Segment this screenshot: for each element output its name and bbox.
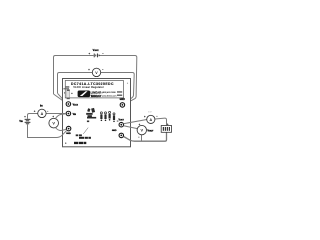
wire VOUT turret to voltmeter VOUT <box>124 126 138 129</box>
battery VAUX <box>94 54 99 58</box>
wire ammeter to VIN turret <box>46 113 66 115</box>
svg-text:VAUX: VAUX <box>73 104 79 107</box>
voltmeter top VAUX <box>92 68 100 76</box>
turret GND left (T3) <box>66 126 71 131</box>
voltmeter VOUT <box>137 125 146 134</box>
plus sign VAUX battery <box>89 53 91 55</box>
voltmeter VIN <box>49 118 59 128</box>
logo LT <box>78 91 91 98</box>
plus sign top voltmeter <box>88 69 90 71</box>
wire VAUX voltmeter loop right <box>101 73 135 105</box>
turret GND bottom right (TR3) <box>119 133 124 138</box>
svg-text:A: A <box>149 118 152 122</box>
minus sign ammeter IIN <box>47 110 48 112</box>
svg-text:VOUT: VOUT <box>119 120 125 122</box>
load resistor RL <box>161 126 171 133</box>
plus sign voltmeter VOUT <box>139 124 141 126</box>
svg-text:VLDO Linear Regulator: VLDO Linear Regulator <box>73 85 104 89</box>
wire VOUT turret to ammeter IOUT <box>124 120 147 124</box>
wire VAUX voltmeter into VAUX turret <box>58 93 66 102</box>
fiducial dot bottom left <box>65 143 66 144</box>
wire ammeter IOUT to load top <box>155 118 167 125</box>
svg-text:LINEAR: LINEAR <box>91 91 102 95</box>
demo board outline <box>63 79 131 147</box>
svg-text:GND: GND <box>66 133 71 135</box>
turret VAUX (T1) <box>66 102 71 107</box>
wire battery VIN bottom to GND turret <box>28 124 67 137</box>
svg-text:V: V <box>141 129 144 133</box>
svg-text:www.linear.com: www.linear.com <box>102 95 117 98</box>
svg-text:GND: GND <box>112 130 117 132</box>
turret VIN (T2) <box>66 111 71 116</box>
leader line to bottom text <box>83 128 88 134</box>
plus sign ammeter IOUT <box>144 116 146 118</box>
capacitor C3 silkscreen <box>63 86 72 99</box>
minus sign ammeter IOUT <box>156 115 157 117</box>
contact text extra <box>117 91 122 93</box>
wire voltmeter VOUT minus to bottom <box>141 135 143 142</box>
wire voltmeter VIN plus to VIN turret <box>55 114 66 119</box>
bottom silkscreen text row 2 <box>79 137 91 139</box>
wire VAUX battery loop right <box>99 56 137 106</box>
resistor R3 silkscreen <box>109 111 111 120</box>
plus sign load <box>167 123 169 125</box>
plus sign battery VIN <box>24 116 26 118</box>
mounting hole dot top right <box>127 83 128 84</box>
minus sign voltmeter VOUT <box>138 136 139 138</box>
wire VAUX voltmeter loop left <box>58 73 93 94</box>
minus sign VAUX battery <box>102 52 103 54</box>
svg-text:IOUT: IOUT <box>148 111 152 113</box>
turret GND top right (TR1) <box>120 103 125 108</box>
ammeter IOUT <box>147 115 155 123</box>
logo text LINEAR TECHNOLOGY <box>91 91 102 98</box>
resistor R2 silkscreen <box>104 112 106 121</box>
svg-text:A: A <box>41 112 44 116</box>
wire voltmeter VIN minus to GND turret <box>55 128 66 131</box>
capacitor C1 silkscreen slanted <box>86 108 96 119</box>
ammeter IIN <box>38 109 46 117</box>
wire VAUX battery loop top/left <box>54 56 94 95</box>
reference label U1 <box>87 121 89 123</box>
bottom silkscreen text row 3 <box>74 142 86 144</box>
wire GND turret to load bottom <box>124 132 167 141</box>
svg-text:(408) 432-1900: (408) 432-1900 <box>102 92 117 94</box>
svg-text:VOUT: VOUT <box>147 129 154 132</box>
bottom silkscreen text row 1 <box>76 134 82 136</box>
wire VIN battery to ammeter <box>28 114 38 119</box>
svg-text:TECHNOLOGY: TECHNOLOGY <box>91 94 102 98</box>
capacitor C2 silkscreen <box>113 113 115 122</box>
svg-text:DC741A-LTC3025EDC: DC741A-LTC3025EDC <box>71 82 114 86</box>
battery VIN <box>25 119 31 124</box>
title box <box>65 81 123 98</box>
value label dash <box>117 120 119 123</box>
plus sign voltmeter VIN <box>52 116 54 118</box>
wire VAUX loop into VAUX turret <box>54 94 67 103</box>
resistor R1 silkscreen <box>100 112 102 121</box>
svg-text:V: V <box>52 122 55 126</box>
turret VOUT (TR2) <box>119 122 124 127</box>
minus sign top voltmeter <box>102 68 103 70</box>
svg-text:GND: GND <box>120 99 125 101</box>
plus sign ammeter IIN <box>34 110 36 112</box>
